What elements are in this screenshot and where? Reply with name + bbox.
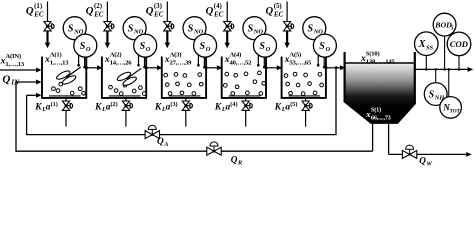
svg-text:O: O: [206, 46, 211, 53]
reactor tank T2 walls: [102, 57, 146, 98]
sensor stem S_NH: [434, 68, 437, 83]
svg-text:K: K: [34, 102, 42, 112]
label Q_EC(3): [146, 3, 164, 19]
svg-text:53,…,65: 53,…,65: [289, 60, 312, 67]
svg-text:K: K: [94, 102, 102, 112]
svg-text:(2): (2): [94, 3, 102, 10]
label x S(1): [365, 107, 391, 122]
reactor tank T5 walls: [282, 57, 326, 98]
sensor S_NO2 circle: [123, 17, 146, 40]
recycle line Q_R: [16, 80, 373, 152]
svg-text:(1): (1): [51, 101, 58, 108]
svg-text:Q: Q: [231, 155, 238, 165]
svg-text:S: S: [308, 24, 314, 35]
svg-text:EC: EC: [213, 12, 224, 19]
sensor S_O5 circle: [313, 34, 336, 57]
label x A(4): [224, 52, 252, 67]
tank T5 diffuser line: [289, 95, 321, 97]
svg-text:EC: EC: [153, 12, 164, 19]
tank T1 impeller: [55, 67, 80, 86]
label x A(2): [104, 52, 132, 67]
flow arrow T2 to T3: [145, 65, 163, 70]
settler surface line: [345, 62, 415, 64]
sensor S_O1 circle: [74, 34, 97, 57]
label K_La(4): [214, 101, 238, 113]
svg-text:Q: Q: [2, 73, 10, 85]
svg-text:O: O: [86, 46, 91, 53]
settler underflow pipe: [372, 123, 374, 151]
valve V_EC3: [164, 22, 174, 31]
svg-text:Q: Q: [419, 156, 426, 166]
reactor tank T1 walls: [42, 57, 86, 98]
tank T2 diffuser line: [109, 95, 141, 97]
svg-text:S: S: [68, 24, 74, 35]
svg-text:COD: COD: [450, 39, 468, 49]
sensor probes T5: [317, 55, 326, 68]
sensor stem COD: [458, 55, 461, 70]
label x A(5): [284, 52, 312, 67]
svg-text:S(1): S(1): [371, 107, 381, 114]
sensor S_NO5 circle: [303, 17, 326, 40]
sensor probes T1: [77, 55, 86, 68]
svg-text:Q: Q: [146, 6, 154, 17]
svg-text:EC: EC: [93, 12, 104, 19]
svg-text:27,…,39: 27,…,39: [170, 60, 193, 67]
svg-text:A(2): A(2): [110, 52, 122, 59]
svg-text:EC: EC: [273, 12, 284, 19]
svg-text:40,…,52: 40,…,52: [230, 60, 253, 67]
sensor stem N_TOT: [448, 68, 451, 97]
label x A(IN): [0, 53, 25, 68]
flow arrow T1 to T2: [85, 65, 103, 70]
svg-text:(1): (1): [34, 3, 42, 10]
sensor S_NH circle: [424, 83, 447, 106]
svg-text:(4): (4): [230, 101, 237, 108]
carbon feed arrow into T1: [45, 31, 50, 48]
tank T4 bubbles: [223, 71, 265, 95]
svg-text:5: 5: [451, 25, 454, 31]
svg-text:X: X: [418, 39, 426, 50]
label K_La(2): [94, 101, 118, 113]
tank T4 diffuser line: [229, 95, 261, 97]
svg-text:Q: Q: [86, 6, 94, 17]
svg-text:S(10): S(10): [366, 51, 380, 58]
carbon feed line Q_EC(2): [106, 2, 108, 22]
recycle line Q_A: [27, 68, 337, 135]
effluent line: [415, 67, 473, 72]
svg-text:Q: Q: [157, 136, 164, 146]
svg-text:A(4): A(4): [230, 52, 242, 59]
waste line Q_W: [389, 152, 472, 157]
sensor COD circle: [447, 32, 471, 56]
carbon feed line Q_EC(3): [166, 2, 168, 22]
svg-text:S: S: [259, 41, 265, 52]
aeration valve V_KLa3: [182, 98, 192, 127]
influent arrow Q_IN: [0, 68, 42, 73]
tank T3 diffuser line: [169, 95, 201, 97]
svg-text:K: K: [154, 102, 162, 112]
settler waste pipe: [388, 123, 390, 155]
carbon feed arrow into T5: [284, 31, 289, 48]
label K_La(5): [274, 101, 298, 113]
sensor probes T4: [257, 55, 266, 68]
svg-text:S: S: [188, 24, 194, 35]
svg-text:EC: EC: [33, 12, 44, 19]
tank T2 impeller: [116, 68, 141, 87]
aeration valve V_KLa1: [62, 98, 72, 127]
svg-text:(5): (5): [290, 101, 297, 108]
svg-text:R: R: [237, 159, 242, 166]
label Q_EC(2): [86, 3, 104, 19]
svg-text:Q: Q: [26, 6, 34, 17]
valve V_EC4: [224, 22, 234, 31]
label Q_EC(5): [266, 3, 284, 19]
label x A(3): [164, 52, 192, 67]
label Q_A: [157, 136, 168, 148]
label Q_IN: [2, 73, 20, 86]
svg-text:1,…,13: 1,…,13: [5, 61, 24, 68]
svg-text:S: S: [429, 89, 435, 100]
svg-text:(3): (3): [154, 3, 162, 10]
sensor S_O3 circle: [194, 34, 217, 57]
tank T5 bubbles: [284, 72, 323, 95]
sensor BOD5 circle: [433, 13, 456, 36]
reactor tank T4 walls: [222, 57, 266, 98]
svg-text:14,…,26: 14,…,26: [110, 60, 133, 67]
sensor stem BOD5: [443, 36, 446, 71]
label K_La(1): [34, 101, 58, 113]
svg-text:S: S: [140, 41, 146, 52]
valve V_EC2: [104, 22, 114, 31]
svg-text:Q: Q: [206, 6, 214, 17]
tank T2 bubbles: [109, 83, 146, 95]
svg-text:138,.....,145: 138,.....,145: [366, 59, 396, 66]
label Q_EC(1): [26, 3, 44, 19]
svg-text:S: S: [80, 41, 86, 52]
svg-text:O: O: [326, 46, 331, 53]
valve V_QW: [402, 145, 416, 158]
flow arrow T3 to T4: [205, 65, 223, 70]
svg-text:S: S: [128, 24, 134, 35]
svg-text:K: K: [274, 102, 282, 112]
svg-text:A(IN): A(IN): [5, 53, 20, 60]
flow arrow T4 to T5: [265, 65, 283, 70]
svg-text:S: S: [248, 24, 254, 35]
svg-text:S: S: [319, 41, 325, 52]
svg-text:(5): (5): [274, 3, 282, 10]
svg-text:1,…,13: 1,…,13: [50, 60, 69, 67]
svg-text:66,....,73: 66,....,73: [371, 115, 391, 122]
aeration valve V_KLa2: [122, 98, 132, 127]
aeration valve V_KLa5: [302, 98, 312, 127]
carbon feed line Q_EC(1): [47, 2, 49, 22]
sensor probes T3: [197, 55, 206, 68]
svg-text:A(1): A(1): [50, 52, 62, 59]
svg-text:BOD: BOD: [434, 21, 452, 30]
svg-text:(3): (3): [170, 101, 177, 108]
svg-text:A(3): A(3): [170, 52, 182, 59]
label Q_R: [231, 155, 242, 167]
svg-text:TOT: TOT: [450, 108, 461, 114]
svg-text:Q: Q: [266, 6, 274, 17]
settler liquid gradient body: [345, 64, 415, 123]
carbon feed line Q_EC(4): [226, 2, 228, 22]
sensor X_SS circle: [415, 32, 439, 56]
junction node Q_A tee: [335, 66, 338, 69]
svg-text:A: A: [163, 141, 168, 148]
svg-text:SS: SS: [426, 44, 434, 51]
reactor tank T3 walls: [162, 57, 206, 98]
carbon feed arrow into T3: [165, 31, 170, 48]
svg-text:A(5): A(5): [289, 52, 301, 59]
tank T3 bubbles: [164, 73, 203, 96]
svg-text:O: O: [266, 46, 271, 53]
tank T1 bubbles: [52, 80, 86, 95]
sensor S_O2 circle: [134, 34, 157, 57]
valve V_QR: [207, 142, 221, 155]
sensor S_NO4 circle: [243, 17, 266, 40]
sensor N_TOT circle: [440, 97, 462, 119]
carbon feed arrow into T2: [105, 31, 110, 48]
label Q_EC(4): [206, 3, 224, 19]
settler outline: [345, 52, 415, 123]
sensor S_NO3 circle: [183, 17, 206, 40]
svg-text:S: S: [200, 41, 206, 52]
valve V_EC1: [44, 22, 54, 31]
sensor stem X_SS: [425, 55, 428, 71]
valve V_EC5: [284, 22, 294, 31]
label K_La(3): [154, 101, 178, 113]
sensor S_NO1 circle: [63, 17, 86, 40]
flow arrow T5 to settler: [324, 65, 345, 70]
label Q_W: [419, 156, 432, 168]
carbon feed arrow into T4: [225, 31, 230, 48]
svg-text:(2): (2): [111, 101, 118, 108]
sensor probes T2: [137, 55, 146, 68]
label x A(1): [44, 52, 69, 67]
svg-text:O: O: [146, 46, 151, 53]
label x S(10): [360, 51, 395, 66]
sensor S_O4 circle: [254, 34, 277, 57]
svg-text:W: W: [426, 160, 432, 167]
carbon feed line Q_EC(5): [286, 2, 288, 22]
tank T1 diffuser line: [49, 95, 81, 97]
aeration valve V_KLa4: [242, 98, 252, 127]
svg-text:(4): (4): [214, 3, 222, 10]
valve V_QA: [145, 125, 159, 138]
svg-text:K: K: [214, 102, 222, 112]
